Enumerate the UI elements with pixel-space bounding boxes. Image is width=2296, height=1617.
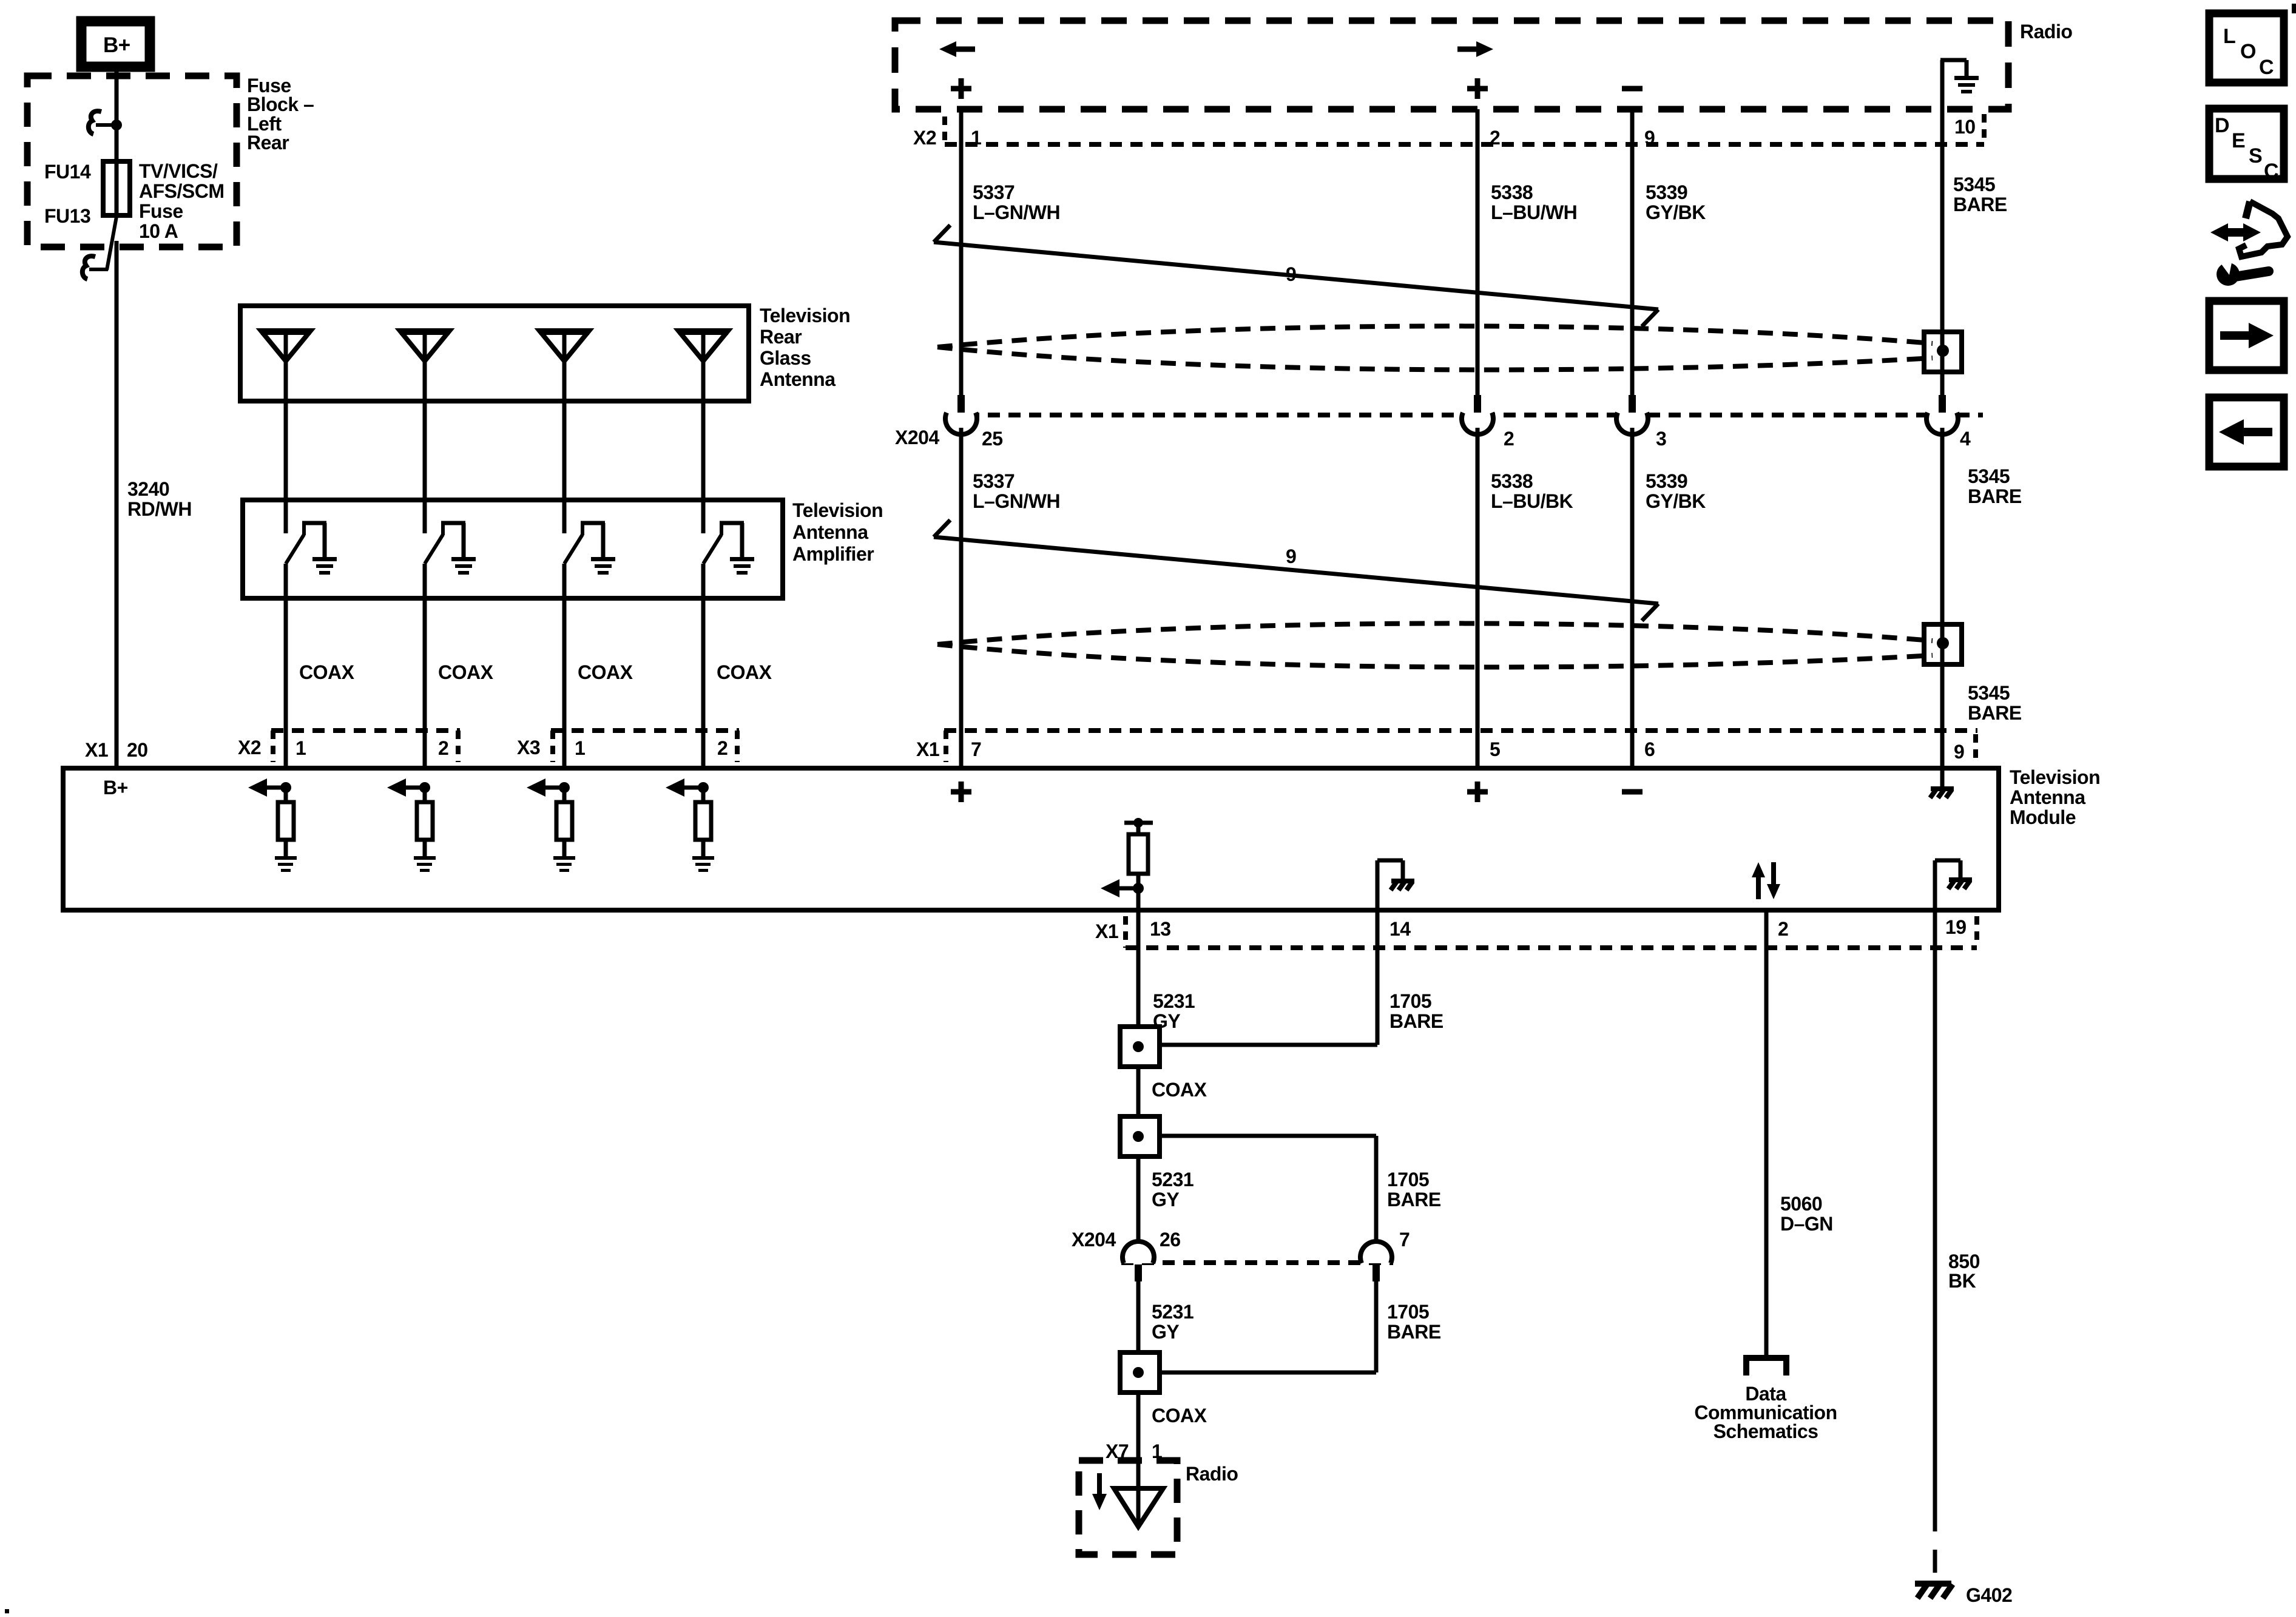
svg-text:6: 6 (1644, 738, 1655, 760)
svg-text:5337: 5337 (973, 470, 1015, 492)
svg-text:9: 9 (1286, 545, 1296, 567)
off-page connector (data link) (1746, 1358, 1786, 1376)
svg-text:X1: X1 (916, 738, 939, 760)
antenna element 2 (400, 331, 450, 533)
svg-text:2: 2 (1504, 428, 1514, 450)
svg-text:L–GN/WH: L–GN/WH (973, 201, 1060, 223)
svg-text:BARE: BARE (1953, 194, 2007, 215)
label wire 5060 D-GN (1780, 1193, 1833, 1235)
svg-text:Fuse: Fuse (139, 200, 183, 222)
svg-text:2: 2 (717, 737, 728, 759)
wire X204 to antenna module X1 (959, 428, 964, 768)
svg-text:Block –: Block – (247, 93, 314, 115)
label wire 5345 BARE (lowest) (1968, 682, 2022, 724)
ground (module termination 3) (553, 856, 575, 872)
wire splice 3 to radio (1136, 1393, 1141, 1525)
svg-text:AFS/SCM: AFS/SCM (139, 180, 225, 202)
svg-text:GY: GY (1152, 1189, 1179, 1210)
svg-text:BARE: BARE (1389, 1010, 1443, 1032)
svg-text:850: 850 (1948, 1251, 1980, 1272)
chassis ground (module pin 14) (1377, 860, 1414, 910)
svg-text:Television: Television (760, 305, 850, 326)
svg-text:7: 7 (971, 738, 981, 760)
svg-text:BARE: BARE (1968, 702, 2022, 724)
wire coax 3 (amplifier to module) (562, 564, 567, 768)
svg-text:D: D (2215, 114, 2229, 137)
svg-text:COAX: COAX (1152, 1405, 1207, 1426)
svg-text:S: S (2249, 144, 2262, 167)
svg-text:1: 1 (971, 127, 981, 149)
fuse element lower lead (diagonal) (107, 217, 116, 270)
svg-text:10: 10 (1954, 116, 1976, 138)
svg-text:5060: 5060 (1780, 1193, 1822, 1215)
svg-text:FU14: FU14 (44, 161, 91, 183)
amplifier switch 3 (564, 521, 605, 564)
svg-text:Glass: Glass (760, 347, 811, 369)
label wire 5345 BARE (upper) (1953, 174, 2007, 215)
wire pin 14 shield down (1376, 910, 1380, 1045)
svg-text:Schematics: Schematics (1714, 1420, 1818, 1442)
svg-text:1: 1 (295, 737, 306, 759)
svg-text:Television: Television (792, 499, 883, 521)
Radio dashed box (895, 21, 2008, 109)
wire 850 BK dashed tail (1933, 1508, 1937, 1580)
svg-text:5231: 5231 (1153, 990, 1195, 1012)
svg-text:TV/VICS/: TV/VICS/ (139, 160, 218, 182)
ground (amplifier switch 3) (591, 557, 615, 575)
svg-text:COAX: COAX (578, 661, 633, 683)
svg-text:D–GN: D–GN (1780, 1213, 1833, 1235)
wire radio pin 9 down to X204 (1630, 109, 1635, 396)
amplifier switch 2 (425, 521, 465, 564)
wire 850 BK (pin 19 to G402) (1933, 910, 1937, 1508)
svg-text:10 A: 10 A (139, 220, 178, 242)
fuse FU13/FU14 TV/VICS/AFS/SCM 10A (103, 161, 130, 215)
wire resistor 1 to ground (284, 840, 288, 856)
wire resistor 2 to ground (423, 840, 427, 856)
connector X1 (module bottom) dashed bracket (1126, 916, 1977, 948)
antenna element 3 (539, 331, 589, 533)
connector X3 (antenna module) dashed bracket (551, 731, 739, 762)
module input arrow 4 (666, 778, 709, 797)
twisted pair shield loop (upper) (937, 326, 1933, 370)
wire resistor to pin 13 (1136, 874, 1141, 910)
svg-text:2: 2 (438, 737, 448, 759)
radio pin 9 polarity - (1622, 86, 1643, 92)
wire 5060 D-GN (pin 2 to data link) (1764, 910, 1769, 1357)
data link arrows (module pin 2) (1752, 862, 1780, 899)
svg-text:Antenna: Antenna (760, 368, 836, 390)
connector X204 pin 2 terminal (1462, 395, 1493, 434)
connector X204 pin 26 terminal (1123, 1241, 1154, 1281)
wire shield X204 to splice 3 (1160, 1281, 1376, 1372)
wire antenna input 3 internal (562, 788, 567, 802)
svg-text:1705: 1705 (1387, 1169, 1429, 1190)
svg-text:FU13: FU13 (44, 205, 90, 227)
connector X1 (module top) dashed bracket (944, 731, 1977, 762)
coax splice 3 (1120, 1352, 1160, 1393)
label wire 5339 GY/BK (lower) (1646, 470, 1706, 512)
label wire 5339 GY/BK (upper) (1646, 181, 1706, 223)
label wire 1705 BARE (2) (1387, 1169, 1441, 1210)
label wire 5338 L-BU/BK (1491, 470, 1573, 512)
svg-text:Antenna: Antenna (792, 521, 868, 543)
label wire 3240 RD/WH (127, 478, 192, 520)
label wire 5337 L-GN/WH (upper) (973, 181, 1060, 223)
fuse clip terminal (top) (89, 111, 115, 134)
crossover slash 9 (upper) (934, 225, 1658, 326)
svg-text:2: 2 (1490, 127, 1500, 149)
resistor (module output) (1129, 834, 1148, 874)
module input arrow 2 (387, 778, 430, 797)
svg-text:X204: X204 (1072, 1229, 1116, 1251)
svg-text:5337: 5337 (973, 181, 1015, 203)
svg-text:Rear: Rear (247, 132, 289, 154)
svg-text:BARE: BARE (1968, 485, 2022, 507)
connector X2 (antenna module) dashed bracket (271, 731, 460, 762)
shield drain splice (upper) (1924, 332, 1962, 372)
svg-text:X2: X2 (913, 127, 936, 149)
module input arrow 3 (527, 778, 570, 797)
chassis ground G402 (1915, 1584, 1953, 1598)
svg-text:E: E (2232, 129, 2245, 152)
wire coax 4 (amplifier to module) (701, 564, 706, 768)
icon DESC (2209, 109, 2284, 183)
label Television Antenna Amplifier (792, 499, 883, 565)
module input arrow 1 (248, 778, 291, 797)
antenna element 4 (678, 331, 728, 533)
svg-text:L–GN/WH: L–GN/WH (973, 490, 1060, 512)
svg-text:13: 13 (1150, 918, 1171, 940)
node: fuse top terminal junction (111, 120, 122, 130)
svg-text:5345: 5345 (1968, 682, 2010, 704)
antenna element 1 (261, 331, 311, 533)
wire X204 to antenna module X1 (1476, 428, 1480, 768)
arrow (radio output left) (939, 41, 975, 57)
svg-text:X204: X204 (895, 427, 939, 448)
svg-text:5345: 5345 (1968, 465, 2010, 487)
svg-text:C: C (2264, 160, 2278, 183)
svg-text:9: 9 (1954, 741, 1964, 763)
svg-text:COAX: COAX (438, 661, 494, 683)
connector X204 pin 3 terminal (1616, 395, 1648, 434)
label wire 1705 BARE (1) (1389, 990, 1443, 1032)
svg-text:X1: X1 (85, 739, 108, 761)
wire splice 1 to splice 2 (1136, 1067, 1141, 1116)
wire radio pin 10 down to X204 (1940, 109, 1945, 396)
resistor (module termination 4) (695, 802, 711, 840)
wire B+ feed (3240 RD/WH) (115, 66, 119, 768)
svg-text:5339: 5339 (1646, 470, 1687, 492)
wire X204 to antenna module X1 (1940, 428, 1945, 768)
connector X204 pin 25 terminal (945, 395, 977, 434)
svg-text:C: C (2259, 56, 2274, 79)
svg-text:Antenna: Antenna (2010, 786, 2085, 808)
svg-text:BARE: BARE (1387, 1321, 1441, 1343)
svg-text:X1: X1 (1095, 920, 1118, 942)
ground (module termination 1) (275, 856, 297, 872)
svg-text:9: 9 (1286, 263, 1296, 285)
wire coax 1 (amplifier to module) (284, 564, 288, 768)
label X7 pin 1 (1106, 1440, 1162, 1462)
svg-text:Module: Module (2010, 806, 2076, 828)
svg-text:L–BU/WH: L–BU/WH (1491, 201, 1577, 223)
svg-text:COAX: COAX (299, 661, 355, 683)
power symbol B+ (81, 21, 150, 67)
antenna symbol (radio) (1114, 1488, 1163, 1527)
svg-text:25: 25 (982, 428, 1003, 450)
module polarity - (pin 6) (1622, 789, 1643, 795)
label Television Antenna Module (2010, 766, 2100, 828)
wire coax 2 (amplifier to module) (423, 564, 427, 768)
module polarity + (pin 7) (951, 781, 971, 802)
label wire 5345 BARE (middle) (1968, 465, 2022, 507)
svg-text:3: 3 (1656, 428, 1666, 450)
label X1 pin 20 (B+ into module) (85, 739, 148, 761)
Television Antenna Module box (63, 768, 1999, 910)
resistor (module termination 1) (278, 802, 294, 840)
svg-text:5339: 5339 (1646, 181, 1687, 203)
ground (module termination 4) (692, 856, 714, 872)
wire antenna input 1 internal (284, 788, 288, 802)
Radio (bottom) dashed box (1079, 1460, 1177, 1555)
svg-text:Rear: Rear (760, 326, 802, 348)
svg-text:COAX: COAX (717, 661, 772, 683)
fuse clip terminal (bottom) (83, 256, 108, 279)
label Television Rear Glass Antenna (760, 305, 850, 390)
connector X204 pin 7 terminal (1360, 1241, 1392, 1281)
icon back arrow (2209, 397, 2284, 467)
ground (module termination 2) (414, 856, 436, 872)
svg-text:26: 26 (1160, 1229, 1181, 1251)
fuse block dashed box (27, 76, 237, 247)
svg-text:5231: 5231 (1152, 1301, 1194, 1323)
label wire 850 BK (1948, 1251, 1980, 1292)
svg-text:14: 14 (1389, 918, 1411, 940)
svg-text:L: L (2223, 25, 2235, 48)
svg-text:GY/BK: GY/BK (1646, 201, 1706, 223)
label wire 5338 L-BU/WH (1491, 181, 1577, 223)
coax splice 1 (1120, 1027, 1160, 1067)
ground (radio internal) (1940, 60, 1979, 109)
label wire 5231 GY (3) (1152, 1301, 1194, 1343)
svg-text:1705: 1705 (1387, 1301, 1429, 1323)
svg-text:X2: X2 (238, 737, 261, 758)
svg-text:RD/WH: RD/WH (127, 498, 192, 520)
icon LOC (2209, 13, 2284, 83)
wire X204 to splice 3 (1136, 1281, 1141, 1352)
shield drain splice (lower) (1924, 624, 1962, 664)
connector X204 (coax) dashed line (1121, 1260, 1393, 1265)
svg-text:L–BU/BK: L–BU/BK (1491, 490, 1573, 512)
twisted pair shield loop (lower) (937, 623, 1933, 667)
label wire 5231 GY (1) (1153, 990, 1195, 1032)
chassis ground (module pin 9) (1930, 768, 1954, 798)
icon forward arrow (2209, 301, 2284, 370)
svg-text:BK: BK (1948, 1270, 1976, 1292)
svg-text:Amplifier: Amplifier (792, 543, 874, 565)
ground (amplifier switch 2) (451, 557, 476, 575)
wire radio pin 2 down to X204 (1476, 109, 1480, 396)
svg-text:Radio: Radio (2020, 21, 2072, 42)
ground (amplifier switch 4) (730, 557, 754, 575)
svg-text:7: 7 (1399, 1229, 1410, 1251)
Television Antenna Amplifier box (243, 500, 783, 598)
crossover slash 9 (lower) (934, 520, 1658, 621)
Television Rear Glass Antenna box (240, 306, 749, 401)
chassis ground (module pin 19) (1935, 860, 1972, 910)
coax splice 2 (1120, 1116, 1160, 1156)
radio pin 2 polarity + (1467, 78, 1488, 99)
wire radio pin 1 down to X204 (959, 109, 964, 396)
arrow (radio output right) (1457, 41, 1493, 57)
connector X204 pin 4 terminal (1926, 395, 1958, 434)
wire shield 1 to splice 1 (1160, 1043, 1377, 1047)
svg-text:B+: B+ (103, 33, 130, 57)
label wire 5231 GY (2) (1152, 1169, 1194, 1210)
label wire 5337 L-GN/WH (lower) (973, 470, 1060, 512)
svg-text:5231: 5231 (1152, 1169, 1194, 1190)
resistor (module termination 3) (556, 802, 572, 840)
wire pin 13 coax down (1136, 910, 1141, 1027)
wire antenna input 4 internal (701, 788, 706, 802)
svg-text:BARE: BARE (1387, 1189, 1441, 1210)
module antenna output tee (1124, 818, 1153, 834)
wire X204 to antenna module X1 (1630, 428, 1635, 768)
module output arrow (pin 13) (1101, 879, 1144, 897)
label Fuse Block - Left Rear (247, 75, 314, 154)
ground (amplifier switch 1) (312, 557, 337, 575)
svg-text:X3: X3 (517, 737, 540, 758)
svg-text:19: 19 (1945, 916, 1967, 938)
connector X204 dashed line (947, 413, 1983, 417)
resistor (module termination 2) (417, 802, 433, 840)
svg-text:1705: 1705 (1389, 990, 1431, 1012)
wire splice 2 to X204 (1136, 1156, 1141, 1248)
svg-text:B+: B+ (103, 777, 128, 798)
svg-text:5338: 5338 (1491, 470, 1533, 492)
amplifier switch 1 (286, 521, 326, 564)
svg-text:5: 5 (1490, 738, 1500, 760)
svg-text:9: 9 (1644, 127, 1655, 149)
arrow (radio antenna input) (1092, 1473, 1107, 1510)
icon repair (arrow and wrench) (2210, 201, 2288, 286)
wire resistor 4 to ground (701, 840, 706, 856)
amplifier switch 4 (703, 521, 744, 564)
svg-text:2: 2 (1778, 918, 1788, 940)
svg-text:1: 1 (575, 737, 585, 759)
svg-text:O: O (2240, 40, 2256, 63)
svg-text:4: 4 (1960, 428, 1971, 450)
svg-text:GY: GY (1152, 1321, 1179, 1343)
svg-text:20: 20 (127, 739, 148, 761)
connector X2 (radio) dashed bracket (945, 114, 1984, 144)
wire resistor 3 to ground (562, 840, 567, 856)
label fuse name/value (139, 160, 225, 242)
module polarity + (pin 5) (1467, 781, 1488, 802)
svg-text:Television: Television (2010, 766, 2100, 788)
radio pin 1 polarity + (951, 78, 971, 99)
svg-text:5338: 5338 (1491, 181, 1533, 203)
label wire 1705 BARE (3) (1387, 1301, 1441, 1343)
svg-text:COAX: COAX (1152, 1079, 1207, 1101)
svg-text:G402: G402 (1966, 1584, 2012, 1606)
svg-text:5345: 5345 (1953, 174, 1995, 195)
label Data Communication Schematics (1694, 1383, 1837, 1442)
svg-text:Radio: Radio (1186, 1463, 1238, 1485)
svg-text:GY/BK: GY/BK (1646, 490, 1706, 512)
wire shield from splice 2 (1160, 1136, 1376, 1248)
wire antenna input 2 internal (423, 788, 427, 802)
svg-text:3240: 3240 (127, 478, 169, 500)
